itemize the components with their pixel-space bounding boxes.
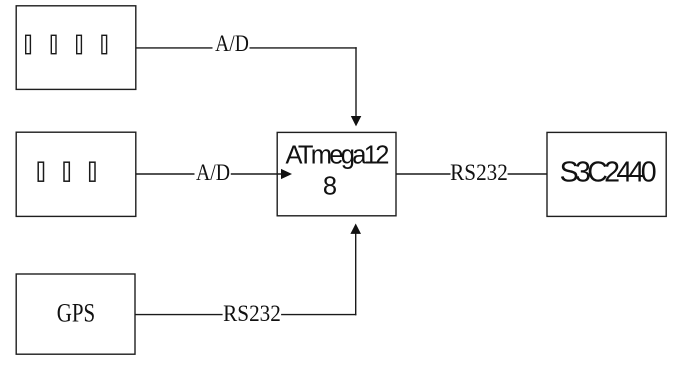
tofu glyph 1 in box 1 (26, 35, 31, 53)
tofu glyph 4 in box 1 (102, 35, 107, 53)
arrowhead up into ATmega bottom (350, 224, 361, 234)
wire: ATmega right to RS232 label (396, 173, 451, 175)
wire: vertical rise into ATmega bottom (355, 233, 357, 315)
wire: vertical drop into ATmega top (355, 47, 357, 117)
wire: RS232 label to S3C2440 left (508, 173, 547, 175)
tofu glyph 1 in box 2 (38, 162, 43, 181)
label RS232 (bottom wire) (223, 301, 281, 327)
arrowhead down into ATmega top (351, 116, 362, 126)
wire: box2 to A/D label (middle) (136, 173, 195, 175)
sensor block 2 (middle-left box) (16, 132, 136, 216)
wire: RS232 label to corner (bottom) (281, 314, 356, 316)
wire: A/D label to corner (top) (250, 47, 357, 49)
wire: A/D label to ATmega left (231, 173, 283, 175)
GPS box (16, 274, 135, 354)
label A/D (top wire) (215, 31, 249, 57)
arrowhead right into ATmega left (281, 169, 292, 179)
tofu glyph 2 in box 2 (64, 162, 69, 181)
tofu glyph 3 in box 2 (90, 162, 95, 181)
MCU box ATmega128 (277, 132, 396, 215)
processor box S3C2440 (547, 132, 666, 216)
label RS232 (right wire) (450, 160, 508, 186)
label A/D (middle wire) (196, 160, 230, 186)
wire: GPS to RS232 label (bottom) (135, 314, 223, 316)
label 8 (second line of ATmega128) (323, 172, 337, 201)
label ATmega128 inside MCU box (wrapped two lines) (285, 142, 386, 171)
wire: box1 to A/D label (top) (136, 47, 213, 49)
tofu glyph 3 in box 1 (77, 35, 82, 53)
tofu glyph 2 in box 1 (51, 35, 56, 53)
label GPS inside GPS box (57, 297, 95, 328)
sensor block 1 (top-left box) (16, 6, 136, 90)
label S3C2440 inside processor box (560, 157, 653, 190)
